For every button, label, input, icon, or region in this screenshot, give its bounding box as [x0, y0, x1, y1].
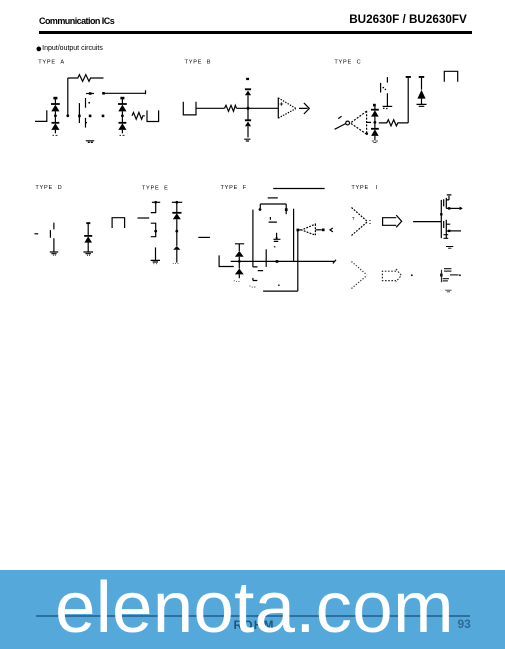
ESD diode upper (TYPE C) [371, 104, 379, 129]
ROHM logo [234, 618, 275, 632]
mirror right leg (TYPE F) [285, 204, 287, 214]
svg-text:TYPE A: TYPE A [38, 60, 65, 66]
node dot on wire mid (TYPE A) [89, 115, 92, 118]
transistor Q1 channel upper (TYPE A) [85, 98, 87, 108]
node dot gate (TYPE A) [78, 115, 81, 118]
node dot VDD right (TYPE E) [175, 201, 178, 204]
VSS label right (TYPE A) [120, 134, 125, 136]
ground lower faint (TYPE I) [445, 290, 451, 292]
buffer U1 edges (TYPE B) [278, 98, 296, 118]
wire base to diodes (TYPE C) [367, 121, 371, 123]
comparator chevron lower faint (TYPE I) [352, 262, 368, 289]
VSS marks hooks (TYPE F) [249, 286, 255, 287]
input pad (TYPE B) [183, 102, 196, 115]
svg-text:TYPE F: TYPE F [221, 185, 247, 191]
comparator chevron upper (TYPE I) [352, 208, 368, 236]
ESD diode lower (TYPE F) [235, 269, 244, 279]
ESD diode lower (TYPE B) [245, 120, 251, 137]
node dot left diode (TYPE A) [54, 114, 57, 117]
node dot diode (TYPE F) [238, 260, 241, 263]
wire to output stage (TYPE I) [413, 221, 441, 223]
input wire (TYPE E) [138, 217, 150, 219]
main input wire (TYPE F) [231, 260, 336, 264]
section bullet: Input/output circuits [36, 43, 103, 55]
transistor Q2 channel lower (TYPE A) [86, 118, 88, 128]
svg-text:TYPE B: TYPE B [185, 60, 212, 66]
node dot (TYPE C) [374, 121, 377, 124]
node dot feedback (TYPE A) [66, 114, 69, 117]
bottom return wire (TYPE F) [263, 290, 298, 292]
VDD bar right (TYPE E) [172, 201, 182, 203]
resistor series (TYPE B) [225, 105, 237, 111]
gate bus left vertical (TYPE F) [252, 210, 254, 267]
enable buffer left-pointing (TYPE F) [302, 224, 316, 235]
gate bar input transistor (TYPE F) [265, 249, 267, 267]
header rule [39, 31, 472, 34]
ground Q1 (TYPE D) [50, 252, 58, 255]
source hooks lower left (TYPE F) [253, 267, 263, 281]
ESD diode lower right (TYPE A) [118, 123, 126, 134]
VSS dots (TYPE E) [173, 262, 179, 264]
right vertical to pair (TYPE F) [293, 209, 295, 262]
VSS marks diode (TYPE F) [234, 280, 240, 283]
node dot right lower (TYPE I) [459, 274, 461, 276]
pin dot small (TYPE A) [88, 102, 90, 104]
input wire diagonal (TYPE C) [335, 116, 346, 129]
ESD diode upper (TYPE F) [235, 244, 244, 269]
clamp diode (TYPE D) [84, 222, 92, 252]
ESD diode pair upper left (TYPE A) [51, 97, 60, 123]
node dot rail (TYPE A) [102, 92, 105, 95]
output line lower (TYPE I) [449, 230, 461, 232]
node dot output (TYPE E) [154, 230, 157, 233]
footer rule (under watermark) [36, 615, 470, 617]
svg-text:T: T [352, 216, 355, 221]
VDD tick bar (TYPE A) [86, 93, 94, 95]
node dot (TYPE B) [247, 107, 250, 110]
output line upper (TYPE I) [449, 207, 460, 209]
enable chevron mark (TYPE F) [330, 228, 333, 232]
node dot base bottom (TYPE C) [366, 132, 369, 135]
node dot mid (TYPE E) [175, 230, 178, 233]
transistor P channel (TYPE E) [151, 202, 156, 212]
VSS label left (TYPE A) [53, 134, 58, 136]
node dot VDD bar (TYPE A) [89, 92, 92, 95]
pair centre marks (TYPE F) [269, 217, 277, 222]
VDD bar (TYPE F) [268, 197, 278, 199]
svg-text:TYPE C: TYPE C [334, 60, 361, 66]
node dot NMOS drain (TYPE I) [448, 230, 450, 232]
node dot main wire (TYPE F) [276, 260, 279, 263]
output pad (TYPE D) [112, 218, 125, 228]
ESD diode pair upper right (TYPE A) [118, 97, 127, 123]
wire to VDD rail (TYPE A) [105, 90, 146, 94]
feedback vertical (TYPE F) [297, 230, 299, 291]
output cell lower faint (TYPE I) [442, 269, 459, 283]
node dot VDD (TYPE E) [154, 201, 157, 204]
node dot feedback top (TYPE F) [297, 229, 300, 232]
ESD diode upper (TYPE B) [245, 89, 251, 120]
output pad (TYPE A) [147, 110, 159, 121]
clamp diode (TYPE C) [417, 76, 427, 106]
gate bus (TYPE I) [440, 200, 442, 238]
node dot PMOS drain (TYPE I) [448, 207, 450, 209]
level shifter arrow lower faint (TYPE I) [382, 269, 401, 282]
node dot enable (TYPE F) [322, 229, 325, 232]
pull transistor upper (TYPE C) [381, 77, 393, 109]
transistor N upper bracket (TYPE E) [151, 223, 156, 231]
diode D1 (TYPE E) [172, 202, 181, 231]
node dot mirror (TYPE F) [285, 208, 288, 211]
resistor series (TYPE C) [379, 120, 408, 126]
node dot right diode (TYPE A) [121, 114, 124, 117]
transistor N lower bracket (TYPE E) [151, 231, 156, 237]
page number 93 [458, 617, 471, 631]
node dot gate bus (TYPE I) [440, 213, 442, 215]
hysteresis mark (TYPE B) [280, 102, 284, 106]
ground output stage (TYPE I) [446, 247, 453, 249]
node dot cluster (TYPE I) [440, 274, 443, 277]
ESD diode lower left (TYPE A) [51, 123, 59, 134]
NMOS QN (TYPE I) [444, 220, 451, 239]
node blob left (TYPE F) [259, 208, 262, 211]
header left title [39, 16, 114, 26]
resistor R feedback (TYPE A) [68, 75, 104, 82]
ESD diode lower (TYPE C) [371, 129, 379, 141]
arrow head output (TYPE I) [460, 207, 463, 211]
tick end small (TYPE F) [278, 284, 280, 286]
transistor Q1 gate bus (TYPE A) [78, 103, 80, 123]
header right part number [349, 13, 467, 26]
output arrow (TYPE B) [299, 103, 309, 114]
svg-text:TYPE D: TYPE D [35, 185, 62, 191]
wire apex to node (TYPE F) [298, 229, 302, 231]
current mirror top wire (TYPE F) [260, 204, 286, 208]
transistor Q1 (TYPE D) [50, 223, 54, 252]
comparator output dots (TYPE I) [369, 220, 370, 223]
wire base to enable (TYPE F) [315, 229, 321, 231]
wire pad column (TYPE C) [406, 76, 411, 123]
ground diode (TYPE D) [83, 252, 93, 255]
ground (TYPE A) [86, 141, 94, 143]
node dot mid lower (TYPE I) [411, 274, 413, 276]
node dot wire right (TYPE A) [102, 115, 105, 118]
VSS marks (TYPE C) [372, 141, 378, 143]
resistor R output (TYPE A) [132, 112, 145, 119]
wire to buffer (TYPE B) [237, 107, 279, 109]
svg-text:TYPE I: TYPE I [351, 185, 378, 191]
input pad (TYPE A) [35, 110, 47, 121]
diode D2 (TYPE E) [173, 231, 180, 263]
VDD tick (TYPE B) [246, 78, 249, 80]
top rail wire (TYPE F) [273, 188, 324, 190]
buffer U1 (TYPE B) [277, 98, 279, 119]
VDD bar left (TYPE E) [152, 201, 160, 203]
capacitor C1 (TYPE F) [273, 233, 280, 247]
wire feedback vertical (TYPE A) [67, 78, 69, 116]
gate input dash (TYPE D) [35, 233, 39, 235]
svg-text:TYPE E: TYPE E [142, 185, 169, 191]
output pad (TYPE C) [444, 71, 457, 81]
inverter U1 (TYPE C) [351, 111, 367, 135]
ground left (TYPE E) [151, 260, 160, 263]
wire input (TYPE B) [196, 107, 225, 109]
ground (TYPE B) [244, 139, 250, 141]
inverter bubble (TYPE C) [346, 121, 350, 125]
PMOS QP (TYPE I) [444, 195, 452, 209]
level shifter arrow upper (TYPE I) [383, 215, 402, 227]
watermark band [0, 570, 505, 649]
source wire to ground (TYPE E) [155, 247, 157, 260]
input pad (TYPE F) [219, 255, 234, 266]
wire stub between E and F [198, 236, 210, 238]
elenota.com watermark [55, 566, 454, 649]
